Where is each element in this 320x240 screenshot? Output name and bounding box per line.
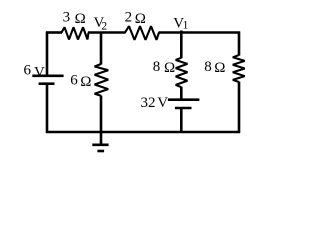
svg-text:1: 1 (183, 19, 189, 31)
resistor 8 ohm right (233, 55, 245, 82)
wire right branch lower (238, 82, 241, 134)
svg-text:Ω: Ω (135, 11, 146, 27)
wire middle branch node V2 upper (100, 32, 103, 65)
wire left branch lower (46, 84, 49, 133)
resistor 3 ohm (62, 27, 89, 39)
svg-text:2: 2 (125, 10, 133, 26)
ground bar short (97, 150, 104, 153)
resistor 6 ohm (95, 64, 109, 96)
svg-text:8: 8 (153, 59, 161, 75)
svg-text:V: V (157, 95, 168, 111)
wire between 8 ohm and 32V battery (180, 87, 183, 100)
resistor 8 ohm middle (176, 58, 188, 87)
resistor 2 ohm (125, 26, 159, 40)
wire top segment C (R2 to right corner through node V1) (159, 31, 241, 34)
svg-text:3: 3 (63, 9, 71, 25)
svg-text:V: V (34, 65, 45, 81)
wire right branch upper (238, 32, 241, 56)
svg-text:Ω: Ω (214, 60, 225, 76)
svg-text:Ω: Ω (80, 74, 91, 90)
battery 32V plate long (168, 98, 200, 101)
svg-text:2: 2 (101, 21, 107, 33)
battery 6V plate long (32, 75, 63, 78)
battery 32V plate short (175, 107, 192, 110)
battery 6V plate short (39, 82, 55, 85)
wire bottom (46, 131, 240, 134)
ground bar long (92, 144, 108, 147)
wire top segment B (R1 to R2 through node V2) (88, 31, 126, 34)
wire below 32V battery (180, 109, 183, 134)
svg-text:32: 32 (141, 95, 156, 111)
svg-text:8: 8 (204, 59, 212, 75)
wire middle branch node V2 lower (100, 96, 103, 134)
svg-text:Ω: Ω (164, 60, 175, 76)
svg-text:Ω: Ω (75, 11, 86, 27)
svg-text:6: 6 (70, 73, 78, 89)
ground stub (100, 132, 103, 146)
svg-text:6: 6 (24, 63, 32, 79)
wire middle branch node V1 upper (180, 31, 183, 59)
wire left branch upper (46, 32, 49, 76)
wire top segment A (left corner to R1) (46, 31, 62, 34)
